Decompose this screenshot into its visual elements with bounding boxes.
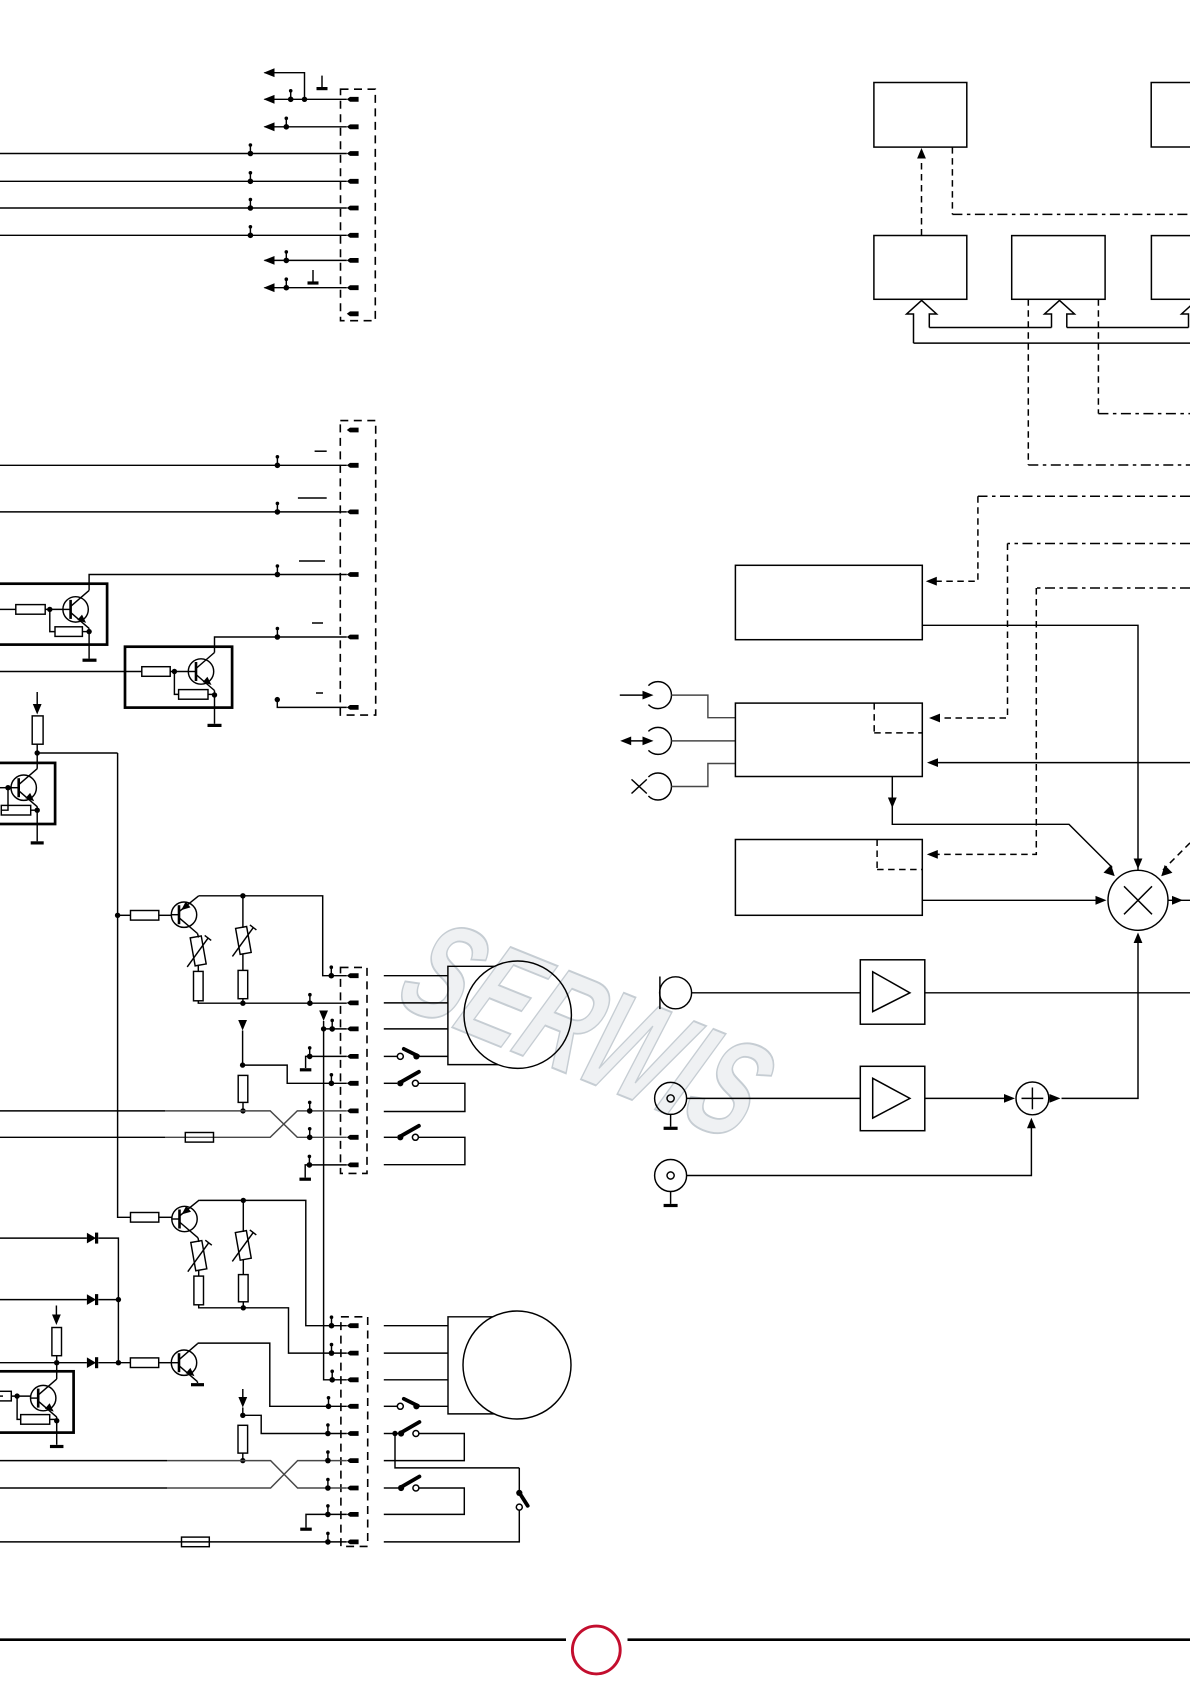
switch S6 [398,1477,419,1492]
connector CN1 pins 1-9 [347,97,359,316]
phono jack J5 [655,1160,687,1192]
node at Q7 base [14,1393,19,1398]
test point on CN4 pin7 wire [325,1478,331,1491]
wire CN2 pin2 from left edge [0,464,347,466]
inner dashed section of B8 [877,840,922,870]
summing output to mixer bottom [1062,938,1139,1099]
wire to CN4 pin5 [243,1415,347,1433]
amplifier block A2 (boxed transistor stage) [125,647,232,708]
test point on CN1 pin8 wire [284,277,290,290]
connector CN3 pins 1-8 [347,973,359,1167]
net label tick marks at CN2 [298,451,327,693]
node R10 / crossover [240,1108,245,1113]
supply arrow into CN3 pin3 rail [319,1011,328,1022]
wire CN3 pin3 to motor M1 [384,1028,448,1030]
test point on CN3 pin7 wire [307,1127,313,1140]
test point on CN3 pin4 wire [307,1046,313,1059]
test point on CN1 pin5 wire [248,198,254,211]
diode D1 [87,1233,97,1244]
wire CN3 pin5 to switch S2 [384,1082,398,1084]
wire diode D3 row from left edge [0,1362,87,1364]
node at Q2 base [172,669,177,674]
resistor R9 [238,970,248,998]
output B7 bottom to mixer (diagonal) [892,777,1112,868]
resistor R19 [238,1425,248,1453]
test point on CN4 pin3 wire [329,1370,335,1383]
resistor R11 on crossover wire [185,1133,213,1143]
switch S7 (record interlock) [516,1468,528,1510]
wire R10 to crossover wire [242,1102,244,1111]
bus duct top rail [929,327,1188,329]
test point on CN4 pin4 wire [326,1396,332,1409]
ground near CN1 top [317,76,328,89]
crossover wire lower (gray) [165,1111,347,1137]
Q2 emitter wire to node [214,691,216,696]
wire to CN3 pin5 [243,1065,347,1083]
test point on CN3 pin8 wire [307,1155,313,1168]
output B8 to mixer [922,899,1103,901]
diode D2 [87,1294,97,1305]
wire CN4 pin9 to switch S7 [384,1510,520,1542]
feedback resistor R5 in A3 [1,788,8,811]
crossover2 wire left black segment upper [0,1460,167,1462]
wire CN1 pin2 [265,126,347,128]
test point on CN1 pin7 wire [284,250,290,263]
resistor R13 [194,1276,204,1305]
wire CN4 pin3 to motor M2 [384,1379,448,1381]
Q4 lower diagonal to trimmer [198,934,199,938]
motor M2 housing [448,1317,494,1414]
wire VR3 to R13 [198,1270,200,1276]
wire CN3 pin7 to switch S3 [384,1136,398,1138]
node top rail / VR4 [241,1198,246,1203]
test point on CN4 pin9 wire [325,1532,331,1545]
wire input to A4 [0,1395,3,1397]
node D2 rail [116,1297,121,1302]
red page marker circle [572,1626,620,1674]
dashed diagonal into mixer from right edge [1163,843,1190,870]
Q6 emitter to ground [197,1382,199,1383]
wire CN3 pin3 [324,1028,347,1030]
rail D2 to D3 row [117,1300,119,1363]
wire CN1 pin1 [265,98,347,100]
node top rail / VR2 [240,893,245,898]
wire CN3 pin1 to motor M1 [384,975,448,977]
wire CN3 pin8 to ground [305,1165,347,1178]
node CN3 pin3 [321,1026,326,1031]
transistor Q5 (PNP) [172,1200,200,1238]
wire CN1 pin7 [265,259,347,261]
test point on CN4 pin2 wire [329,1343,335,1356]
wire R8 to bottom rail [198,1001,346,1003]
connector CN3 (dashed outline) [341,967,368,1173]
wire CN3 pin4 to ground [306,1056,347,1068]
wire CN2 pin5 from amplifier A2 [215,637,347,653]
connector CN2 (dashed outline) [340,421,375,715]
wire CN2 pin4 from amplifier A1 [89,575,347,591]
test point on CN4 pin8 wire [325,1504,331,1517]
wire R1 to Q1 base [45,608,63,610]
transistor Q1 [63,590,90,628]
DIN jack socket J1 [648,682,671,709]
wire input to A3 [0,787,11,789]
wire J4 to amplifier AMP2 [687,1097,861,1099]
node R10 / CN3 pin5 branch [240,1062,245,1067]
wire CN3 pin2 to motor M1 [384,1002,448,1004]
bus duct arrow into B4 (clipped) [1182,300,1190,327]
motor M1 rotor circle [464,961,571,1068]
node Q3 emitter [35,808,40,813]
wire AMP2 to summing node [925,1097,1012,1099]
transistor Q7 [30,1379,57,1417]
wire AMP1 output to right edge [925,992,1190,994]
block B2 [874,236,967,300]
resistor R3 in A2 [142,667,170,677]
test point on CN3 pin5 wire [329,1073,335,1086]
test point on CN1 pin6 wire [248,225,254,238]
bus duct arrow into B2 [907,300,937,343]
amplifier block A1 (boxed transistor stage) [0,584,107,645]
resistor R1 in A1 [16,605,45,615]
test point on CN4 pin1 wire [329,1315,335,1328]
wire arrow to node [242,1031,244,1066]
test point on CN1 pin2 wire [284,117,290,130]
supply arrow above R19 [242,1389,244,1397]
Q5 lower diagonal to trimmer [197,1238,200,1242]
block B8 (bias/erase osc) [735,840,922,916]
resistor R16 to Q6 base [130,1358,158,1368]
switch S5 [398,1422,419,1437]
block B6 (record/play head amp) [735,565,922,639]
ground of A4 [56,1421,58,1445]
Q7 emitter wire to node [56,1417,58,1421]
resistor R17 in A4 [0,1391,11,1401]
bus duct bottom rail [914,342,1190,344]
Q6 collector wire to CN4 pin4 [198,1343,347,1406]
dashed line B1 to right edge [951,147,953,214]
resistor R10 [238,1075,248,1102]
Q7 collector wire to D3 node [56,1363,58,1379]
mixer node (circle with X) [1108,870,1168,930]
crossover wire left black segment lower [0,1136,165,1138]
phono jack J4 [655,1082,687,1114]
test point on CN1 pin4 wire [248,171,254,184]
wire D1 to vertical rail [98,1238,118,1300]
transistor Q4 (PNP) [171,896,199,934]
node R19 / CN4 pin5 branch [240,1413,245,1418]
amplifier block A4 (boxed transistor stage) [0,1371,74,1432]
ground of A3 [36,810,38,841]
inner dashed section of B7 [874,703,922,733]
node rail to Q4 base resistor [115,913,120,918]
wire S1 to motor M1 [416,1055,448,1057]
node bottom rail / R9 [240,1001,245,1006]
wire CN4 pin8 to ground [306,1514,347,1527]
connector CN4 (dashed outline) [341,1317,368,1547]
wire S4 to motor M2 [416,1405,448,1407]
DIN jack socket J3 [648,773,671,800]
wire CN1 pin8 [265,287,347,289]
wire input to A1 [0,608,16,610]
amplifier AMP1 [860,960,925,1024]
transistor Q2 [188,653,215,691]
connector CN2 pins 1-6 [347,428,359,710]
connector CN1 (dashed outline) [341,89,376,321]
wire R9 to bottom rail node [242,999,244,1004]
Q4 top wire (emitter rail) [199,896,347,976]
test point on CN3 pin3 wire [329,1019,335,1032]
crossover2 wire upper (gray) [167,1461,347,1488]
wire to trimmer VR4 [242,1200,244,1232]
wire VR4 to R14 [242,1259,244,1274]
dashed drop from B3 right to right edge [1097,299,1099,413]
switch S3 [397,1126,419,1141]
node A3 collector / R6 [35,750,40,755]
dashed control line into B8 [1036,587,1190,589]
node D3 rail [116,1360,121,1365]
long vertical rail to record amps [118,753,131,1217]
loop wire S5 to CN4 pin6 [384,1434,465,1461]
wire J2 to B7 [671,740,735,742]
switch S2 [397,1072,419,1087]
loop wire S3 to CN3 pin8 [384,1137,465,1164]
wire R14 to bottom rail node [242,1302,244,1308]
dashed control line into B7 [1008,543,1190,545]
node Q1 emitter [86,629,91,634]
bus wire from A3 node to long vertical [37,752,117,754]
wire CN2 pin6 stub [277,700,347,708]
arrow into J1 [620,694,643,696]
summing node (circle with +) [1016,1082,1049,1115]
trimmer potentiometer VR4 [232,1230,256,1262]
node R19 / crossover [240,1458,245,1463]
wire CN1 pin3 from left edge [0,153,347,155]
wire CN4 pin2 to motor M2 [384,1352,448,1354]
test point on CN2 pin3 wire [275,502,281,515]
Q3 collector wire to node [36,753,38,769]
feedback resistor R2 in A1 [50,609,55,631]
crossover wire upper (gray) [165,1111,347,1137]
resistor R15 [52,1328,62,1356]
resistor R6 above A3 node [32,716,43,744]
ground of A2 [214,695,216,724]
resistor R8 [194,971,204,1000]
solid line from right edge into B7 [931,762,1190,764]
dashed arrow B2 to B1 [921,158,923,236]
test point on CN2 pin4 wire [275,564,281,577]
motor M1 housing [448,966,498,1064]
test point on CN1 pin1 wire [288,89,294,102]
DIN jack socket J2 [648,727,671,754]
transistor Q6 [171,1344,198,1382]
block B7 (input selector) [735,703,922,776]
block B4 (right, clipped) [1151,236,1190,300]
wire to trimmer VR2 [242,896,244,928]
crossover2 wire left black segment lower [0,1487,167,1489]
bus duct arrow into B3 [1045,300,1075,327]
wire CN4 pin5 to switch S5 [384,1433,398,1435]
wire CN4 pin4 to switch S4 [384,1405,398,1407]
solid output B6 to mixer [922,625,1138,870]
amplifier block A3 (boxed transistor stage) [0,763,55,824]
wire arrow to node [242,1408,244,1416]
cross mark at J3 [632,779,647,793]
feedback resistor R18 in A4 [17,1396,21,1419]
wire J1 to B7 [671,695,735,718]
amplifier AMP2 [860,1066,925,1130]
dashed control line into B6 [978,495,1190,497]
resistor R20 on CN4 pin9 wire [182,1537,210,1547]
test point on CN3 pin1 wire [329,965,335,978]
wire CN1 pin5 from left edge [0,207,347,209]
transistor Q3 [11,769,38,807]
Q1 emitter wire to node [88,628,90,631]
wire MIC to amplifier AMP1 [692,992,861,994]
trimmer potentiometer VR1 [187,935,211,967]
test point on CN2 pin5 wire [275,627,281,640]
resistor R7 to Q4 base [118,914,131,916]
node R15 / D3 [54,1360,59,1365]
node Q2 emitter [212,692,217,697]
trimmer potentiometer VR3 [188,1240,212,1272]
wire CN4 pin7 to switch S6 [384,1487,398,1489]
test point on CN4 pin6 wire [325,1450,331,1463]
resistor R12 to Q5 base [131,1213,159,1223]
long wire CN4 pin9 from left edge [0,1541,347,1543]
test point on CN4 pin5 wire [325,1423,331,1436]
bottom rule line [0,1638,1190,1641]
wire CN4 pin1 to motor M2 [384,1325,448,1327]
test point on CN3 pin2 wire [307,993,313,1006]
wire D2 to node [98,1299,118,1301]
dashed drop from B3 left to right edge [1027,299,1029,465]
block B1 (top) [874,83,967,148]
supply arrow above R10 [238,1020,247,1031]
supply arrow above R15 [55,1306,57,1315]
ground of J5 [670,1192,672,1204]
wire J3 to B7 [671,764,735,787]
supply feed arrow above R6 [36,692,38,705]
wire VR2 to R9 [242,954,244,971]
wire J5 to summing node bottom [687,1123,1032,1176]
connector CN4 pins 1-9 [347,1323,359,1544]
ground near CN1 pin8 [308,270,319,283]
crossover2 wire lower (gray) [167,1461,347,1488]
wire CN3 pin4 to switch S1 [384,1055,398,1057]
crossover wire left black segment upper [0,1110,165,1112]
mixer output arrow to right edge [1168,899,1190,901]
motor M2 rotor circle [463,1311,571,1419]
wire to CN1 pin1 upper branch with left arrow [265,73,305,100]
switch S4 [397,1399,419,1410]
ground of A1 [88,632,90,659]
resistor R14 [239,1275,249,1302]
node CN4 pin5 branch to S7 [392,1431,397,1436]
block B3 [1012,236,1105,300]
wire CN1 pin6 from left edge [0,234,347,236]
test point on CN2 pin2 wire [275,455,281,468]
wire diode D2 row from left edge [0,1299,87,1301]
test point on CN1 pin3 wire [248,143,254,156]
wire CN1 pin4 from left edge [0,180,347,182]
switch S1 [397,1049,419,1060]
wire VR1 to R8 [197,965,199,971]
Q5 top wire (emitter rail) [199,1200,347,1325]
ground of J4 [670,1114,672,1126]
wire CN2 pin3 from left edge [0,511,347,513]
feedback resistor R4 in A2 [174,672,178,695]
Q3 emitter wire to node [36,807,38,811]
trimmer potentiometer VR2 [232,925,256,957]
node at Q1 base [47,607,52,612]
loop wire S2 to CN3 pin6 [384,1083,465,1111]
wire R13 to bottom rail [199,1305,347,1353]
long vertical CN3 pin3 to CN4 pin3 [324,1021,347,1380]
wire diode D1 row from left edge [0,1237,87,1239]
microphone jack MIC [660,977,692,1010]
wire input to A2 from left edge [0,671,142,673]
tee wire CN4 pin5 to S7 [395,1434,519,1468]
test point on CN3 pin6 wire [307,1101,313,1114]
diode D3 [87,1357,97,1368]
bidirectional arrow at J2 [625,740,649,742]
block B5 (top right, clipped) [1151,83,1190,148]
node bottom rail / R14 [241,1305,246,1310]
loop wire S6 to CN4 pin8 [384,1488,465,1514]
wire D3 to R16 [98,1362,130,1364]
node Q7 emitter [54,1418,59,1423]
wire R19 to crossover [242,1453,244,1461]
